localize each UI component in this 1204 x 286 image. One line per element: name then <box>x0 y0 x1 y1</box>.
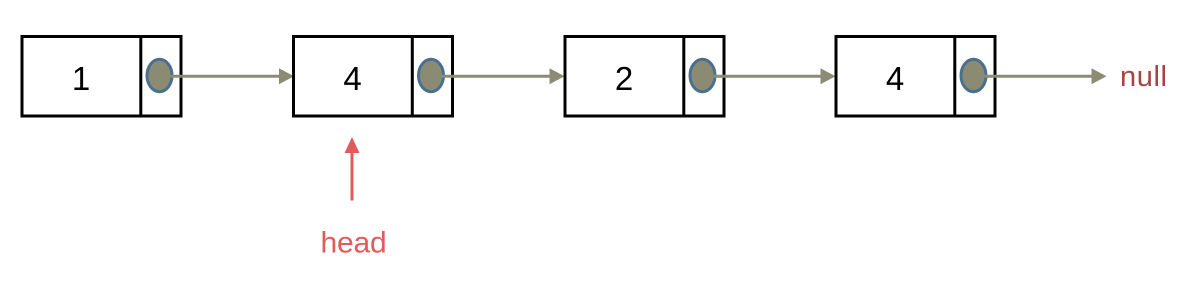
svg-text:4: 4 <box>886 60 904 97</box>
svg-text:4: 4 <box>343 60 361 97</box>
node 4 divider <box>953 35 956 116</box>
node 2 box <box>294 37 453 117</box>
wire node4 to null <box>984 75 1092 78</box>
wire node1 to node2 <box>170 75 280 78</box>
node 4 box <box>836 37 995 117</box>
svg-text:null: null <box>1120 61 1168 93</box>
node 4 pointer dot <box>961 59 986 91</box>
svg-text:1: 1 <box>72 60 90 97</box>
svg-text:2: 2 <box>615 60 633 97</box>
wire node2 to node3 <box>442 75 551 78</box>
head pointer arrow <box>351 152 354 201</box>
svg-text:head: head <box>321 227 387 260</box>
node 2 divider <box>411 35 414 116</box>
node 3 pointer dot <box>690 59 715 91</box>
node 1 box <box>22 37 181 117</box>
wire node3 to node4 <box>713 75 821 78</box>
node 3 box <box>565 37 724 117</box>
node 1 pointer dot <box>147 59 172 91</box>
node 1 divider <box>139 35 142 116</box>
node 2 pointer dot <box>419 59 444 91</box>
node 3 divider <box>682 35 685 116</box>
